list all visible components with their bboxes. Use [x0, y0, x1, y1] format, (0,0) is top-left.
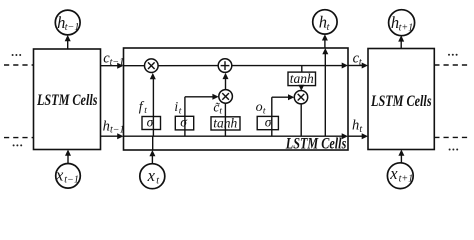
- svg-text:t: t: [359, 57, 362, 68]
- svg-text:tanh: tanh: [290, 71, 314, 86]
- svg-text:x: x: [147, 166, 156, 185]
- svg-text:t: t: [327, 22, 330, 33]
- svg-text:LSTM Cells: LSTM Cells: [285, 136, 346, 153]
- svg-text:t−1: t−1: [110, 125, 125, 136]
- svg-text:tanh: tanh: [213, 115, 237, 130]
- svg-text:x: x: [389, 164, 398, 183]
- svg-text:t+1: t+1: [399, 174, 414, 185]
- svg-text:t−1: t−1: [65, 22, 80, 33]
- svg-text:h: h: [103, 118, 110, 134]
- svg-text:t−1: t−1: [64, 175, 79, 186]
- svg-text:LSTM Cells: LSTM Cells: [36, 92, 97, 109]
- svg-text:i: i: [174, 99, 178, 114]
- svg-text:LSTM Cells: LSTM Cells: [370, 93, 431, 110]
- svg-text:t: t: [156, 176, 159, 187]
- svg-text:o: o: [256, 100, 263, 115]
- svg-text:h: h: [352, 117, 359, 133]
- svg-text:t−1: t−1: [110, 57, 125, 68]
- svg-text:t+1: t+1: [399, 22, 414, 33]
- svg-text:t: t: [359, 124, 362, 135]
- svg-text:x: x: [55, 165, 64, 184]
